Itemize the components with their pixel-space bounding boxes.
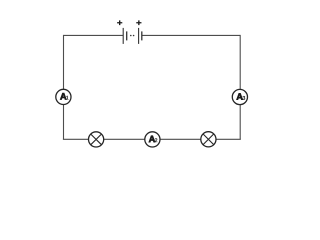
battery B1 cell 1 long plate (+) [122,28,124,44]
battery B1 ellipsis dot 2 [133,35,135,37]
battery B1 cell 2 long plate (+) [138,28,140,44]
lamp L2 [201,132,216,147]
ammeter A1 [56,89,71,104]
wire top-right segment [142,34,240,36]
wire bottom segment [63,138,241,140]
battery B1 cell 1 polarity + [117,20,122,25]
battery B1 ellipsis dot 1 [130,35,132,37]
wire left side [63,35,65,139]
ammeter A3 [232,89,247,104]
battery B1 cell 2 polarity + [136,20,141,25]
wire top-left segment [64,34,123,36]
battery B1 cell 1 short plate (-) [126,31,128,40]
wire right side [239,35,241,139]
lamp L1 [89,132,104,147]
battery B1 cell 2 short plate (-) [141,31,143,40]
ammeter A2 [145,132,160,147]
